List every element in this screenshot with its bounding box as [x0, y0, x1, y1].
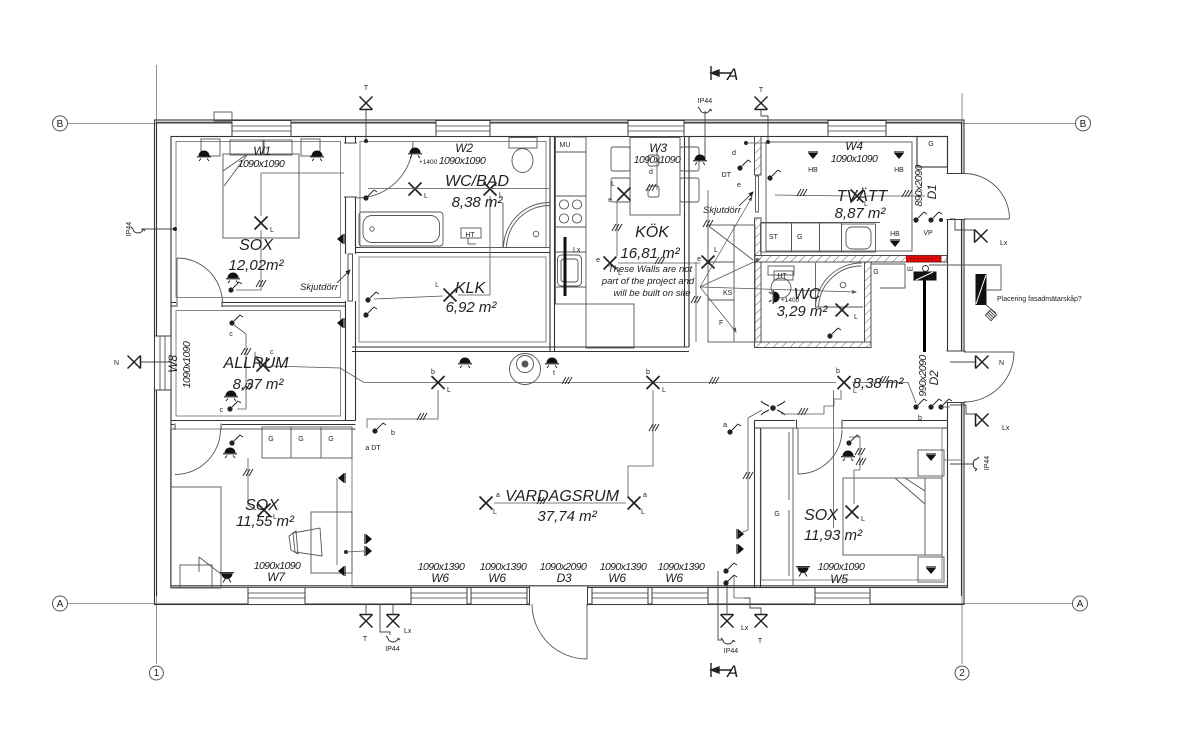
lamp L WC: [836, 304, 849, 317]
room WC/BAD outline: [360, 142, 546, 248]
switch: [846, 435, 860, 446]
svg-text:KLK: KLK: [455, 280, 487, 297]
svg-text:HT: HT: [465, 232, 475, 239]
door arc SOX3: [797, 429, 799, 475]
svg-text:d: d: [649, 169, 653, 176]
svg-text:will be built on site: will be built on site: [613, 288, 690, 299]
lamp L wc: [484, 183, 497, 196]
svg-text:These Walls are not: These Walls are not: [608, 264, 693, 275]
svg-text:HB: HB: [808, 167, 818, 174]
svg-text:Lx: Lx: [1002, 425, 1010, 432]
svg-text:W7: W7: [267, 570, 286, 584]
kitchen table: [630, 138, 680, 216]
svg-text:b: b: [431, 369, 435, 376]
svg-text:A: A: [57, 599, 64, 610]
grid line 2: [961, 93, 963, 664]
wire: [374, 296, 443, 299]
switch top: [229, 435, 243, 446]
svg-text:L: L: [861, 516, 865, 523]
hatched wall WC west: [755, 262, 762, 348]
svg-text:6,92 m²: 6,92 m²: [446, 299, 498, 316]
kitchen black bar: [564, 237, 567, 296]
section arrow A top: [711, 66, 731, 80]
window W6 c: [592, 588, 648, 605]
svg-text:W6: W6: [608, 571, 626, 585]
SOX3 nightstand top: [918, 450, 944, 476]
svg-text:890x2090: 890x2090: [913, 165, 925, 207]
red mark (placering fasadmätarskåp): [907, 256, 942, 262]
wall SOX2 top: [171, 424, 356, 426]
svg-text:A: A: [726, 65, 738, 84]
dome bottom wall: [220, 573, 234, 583]
thick supply line: [923, 281, 926, 353]
svg-text:W6: W6: [431, 571, 449, 585]
lamp L KLK: [444, 289, 457, 302]
junction fan: [761, 401, 785, 415]
svg-text:VARDAGSRUM: VARDAGSRUM: [505, 488, 619, 505]
wall SOX1/ALLRUM divider: [171, 302, 346, 304]
svg-text:SOX: SOX: [245, 497, 280, 514]
wall lamps east: [338, 473, 345, 483]
svg-text:T: T: [363, 636, 368, 643]
kitchen chairs: [611, 147, 630, 171]
hatched wall horizontal (above WC, with red mark): [755, 256, 948, 263]
svg-text:A: A: [1077, 599, 1084, 610]
wire hall2 down: [628, 390, 653, 496]
lamp N left: [128, 356, 141, 369]
door arc SOX1 entry: [177, 258, 223, 304]
junction dot top: [744, 141, 748, 145]
window W1: [232, 121, 291, 137]
svg-text:e: e: [596, 257, 600, 264]
svg-text:G: G: [928, 141, 933, 148]
wall SOX3 (right) top: [755, 420, 948, 422]
WC shower: [816, 263, 864, 307]
toilet WC/BAD: [509, 138, 537, 149]
wall WC/BAD / KLK divider: [356, 247, 551, 249]
kitchen counter band: [556, 137, 587, 304]
svg-text:KS: KS: [723, 290, 733, 297]
svg-text:L: L: [611, 181, 615, 188]
svg-text:W2: W2: [455, 141, 473, 155]
wall kitchen east: [684, 137, 686, 348]
wire: [368, 188, 549, 190]
svg-text:Lx: Lx: [404, 628, 412, 635]
switch WC/BAD: [363, 190, 377, 201]
lamp L SOX2: [258, 504, 271, 517]
svg-text:b: b: [918, 415, 922, 422]
closet G top-right corner: [917, 137, 948, 168]
svg-text:WC/BAD: WC/BAD: [445, 173, 509, 190]
svg-text:SOX: SOX: [239, 237, 274, 254]
svg-text:DT: DT: [722, 172, 732, 179]
svg-text:t: t: [553, 370, 555, 377]
lamp L kitchen 1: [618, 188, 631, 201]
outer wall outer face: [155, 120, 965, 605]
switch KLK b: [363, 307, 377, 318]
TVÄTT counter: [761, 222, 881, 224]
svg-text:c: c: [229, 331, 233, 338]
wires through bottom wall mid: [718, 571, 727, 628]
lamp a/L 1: [480, 497, 493, 510]
svg-text:b: b: [646, 369, 650, 376]
svg-text:e: e: [697, 256, 701, 263]
nightstand lamps: [926, 454, 936, 461]
svg-text:W8: W8: [166, 355, 180, 373]
switch c top: [229, 315, 243, 326]
hatched wall WC south: [755, 342, 872, 348]
grid bubble B right: [1076, 116, 1091, 131]
svg-text:11,93 m²: 11,93 m²: [804, 527, 863, 544]
wall lamp +1400: [769, 290, 780, 304]
door D1 opening (right wall): [947, 174, 966, 220]
dome + switch c bottom: [224, 391, 238, 402]
svg-text:b: b: [391, 430, 395, 437]
svg-text:W1: W1: [253, 144, 270, 158]
lamp L kitchen 2: [604, 257, 617, 270]
lamp Lx right top: [975, 230, 988, 243]
svg-text:T: T: [758, 638, 763, 645]
svg-text:16,81 m²: 16,81 m²: [620, 245, 680, 262]
svg-text:1090x1090: 1090x1090: [831, 153, 878, 165]
svg-text:L: L: [662, 387, 666, 394]
door D3 opening: [530, 587, 588, 606]
TVÄTT inner outline: [766, 142, 912, 251]
lamp a/L 2: [628, 497, 641, 510]
window W6 a: [411, 588, 467, 605]
svg-text:L: L: [435, 282, 439, 289]
SOX3 wardrobe line: [792, 428, 794, 586]
lamp L passage: [702, 256, 715, 269]
svg-text:L: L: [424, 193, 428, 200]
wire to IP44: [944, 459, 962, 461]
door opening SOX1 entry (divider wall): [176, 302, 222, 308]
wire: [761, 110, 768, 142]
lamp L bath: [409, 183, 422, 196]
bed lamp right: [310, 151, 324, 162]
grid line 1: [155, 65, 157, 664]
svg-text:SOX: SOX: [804, 507, 839, 524]
switch DT hall: [372, 423, 386, 434]
svg-text:W3: W3: [649, 141, 667, 155]
grid bubble 1: [149, 666, 163, 680]
switch TVÄTT: [767, 170, 781, 181]
bottom-left outdoor: lamp T: [360, 615, 373, 628]
wire: [494, 502, 626, 504]
proposed facade cabinet outside: [929, 265, 1001, 321]
sliding door gap TVÄTT: [755, 218, 762, 262]
svg-text:HT: HT: [777, 273, 787, 280]
svg-text:1090x1090: 1090x1090: [439, 155, 486, 167]
sink kitchen: [558, 255, 582, 286]
lamp b/L hall 1: [432, 376, 445, 389]
svg-text:T: T: [759, 87, 764, 94]
svg-text:ALLRUM: ALLRUM: [223, 355, 290, 372]
door D3 leaf+arc: [586, 604, 588, 659]
svg-text:F: F: [719, 320, 723, 327]
window W4: [828, 121, 886, 137]
svg-text:a: a: [643, 492, 647, 499]
wires kitchen: [616, 200, 618, 256]
svg-text:G: G: [268, 436, 273, 443]
svg-text:N: N: [999, 360, 1004, 367]
grid bubble 2: [955, 666, 969, 680]
svg-text:Skjutdörr: Skjutdörr: [300, 282, 339, 293]
room KLK outline: [359, 257, 546, 342]
switch SOX1: [226, 273, 240, 284]
svg-text:e: e: [737, 182, 741, 189]
window W7: [248, 588, 305, 605]
svg-text:L: L: [493, 509, 497, 516]
dome corridor 2: [545, 358, 559, 369]
svg-text:G: G: [774, 511, 779, 518]
HB lamps W4: [808, 152, 818, 159]
svg-text:2: 2: [959, 668, 965, 679]
svg-text:12,02m²: 12,02m²: [228, 257, 284, 274]
SOX2 bed: [171, 487, 221, 588]
svg-text:IP44: IP44: [698, 98, 713, 105]
svg-text:G: G: [797, 234, 802, 241]
wall lamps pair right: [737, 529, 744, 539]
svg-text:Lx: Lx: [741, 625, 749, 632]
svg-text:L: L: [641, 509, 645, 516]
svg-text:a: a: [723, 422, 727, 429]
svg-text:1090x1090: 1090x1090: [634, 154, 681, 166]
outer wall inner face: [171, 137, 948, 588]
svg-text:L: L: [854, 314, 858, 321]
svg-text:Lx: Lx: [1000, 240, 1008, 247]
shower WC/BAD: [503, 203, 550, 248]
svg-text:HB: HB: [890, 231, 900, 238]
door D1 leaf+arc: [964, 218, 1009, 220]
svg-text:G: G: [873, 269, 878, 276]
svg-text:WC: WC: [794, 286, 821, 303]
IP44 outlet left: [126, 222, 133, 237]
room ALLRUM outline: [176, 311, 341, 417]
SOX1 nightstand left: [201, 139, 220, 156]
door arc SOX2: [175, 429, 221, 475]
svg-text:1: 1: [154, 668, 160, 679]
grid bubble A left: [53, 596, 68, 611]
window W8 (left wall): [155, 336, 172, 390]
SOX2 G wardrobes: [262, 427, 352, 458]
lamp Lx right mid: [976, 414, 989, 427]
switches bottom wall mid: [723, 563, 737, 574]
svg-text:KÖK: KÖK: [635, 223, 670, 241]
wire: [365, 110, 367, 141]
KS/F tall cabinets: [708, 225, 755, 342]
window W3: [628, 121, 684, 137]
svg-text:L: L: [270, 227, 274, 234]
hall ceiling detector (double circle): [510, 354, 541, 385]
svg-text:B: B: [57, 119, 64, 130]
bed lamp left: [197, 151, 211, 162]
wall lamp +1400: [408, 148, 422, 159]
wall lamp SOX1 east: [337, 234, 344, 244]
lamp N right: [976, 356, 989, 369]
svg-text:1090x1090: 1090x1090: [238, 158, 285, 170]
bottom-mid outdoor: lamp Lx: [721, 615, 734, 628]
wall kitchen west: [549, 137, 551, 352]
window W5: [815, 588, 870, 605]
svg-text:T: T: [364, 85, 369, 92]
pocket door (Skjutdörr) SOX1 gap: [344, 254, 357, 301]
HT box WC/BAD: [461, 228, 481, 238]
svg-text:TVÄTT: TVÄTT: [837, 187, 889, 205]
bottom-left outdoor: lamp Lx: [387, 615, 400, 628]
wall SOX1/ALLRUM east (x345-356): [345, 137, 347, 421]
room SOX2 outline: [171, 429, 353, 588]
svg-text:IP44: IP44: [984, 456, 991, 471]
svg-text:IP44: IP44: [724, 648, 739, 655]
window W6 d: [652, 588, 708, 605]
svg-text:HB: HB: [894, 167, 904, 174]
svg-text:W4: W4: [845, 139, 863, 153]
svg-text:a: a: [496, 492, 500, 499]
TVÄTT washing machine: [842, 224, 876, 252]
W1 casement boxes: [230, 140, 263, 155]
SOX3 bed: [843, 478, 942, 555]
svg-text:G: G: [328, 436, 333, 443]
svg-text:d: d: [732, 150, 736, 157]
svg-text:IP44: IP44: [126, 222, 133, 237]
door D2 leaf+arc: [964, 351, 1014, 353]
lamp T top: [360, 97, 373, 110]
dome passage: [693, 155, 707, 166]
IP44 right: [984, 456, 991, 471]
WC toilet: [768, 266, 794, 275]
SOX1 nightstand right: [301, 139, 320, 156]
lamp L ALLRUM: [257, 359, 270, 372]
svg-text:a DT: a DT: [365, 445, 381, 452]
WC HT box: [774, 271, 793, 280]
svg-text:8,38 m²: 8,38 m²: [853, 375, 905, 392]
hatched wall WC east: [865, 262, 872, 348]
svg-text:D2: D2: [927, 370, 941, 385]
svg-text:W6: W6: [488, 571, 506, 585]
dome bottom: [796, 567, 810, 577]
bottom-mid outdoor: lamp T: [755, 615, 768, 628]
svg-text:IP44: IP44: [385, 646, 400, 653]
leader lines note: [700, 197, 856, 332]
switches at D2: [913, 399, 927, 410]
grid line B: [68, 122, 1075, 124]
svg-text:D1: D1: [925, 185, 939, 200]
bathtub: [359, 212, 443, 246]
lamp L TVÄTT: [851, 190, 864, 203]
lamp b/L hall 2: [647, 376, 660, 389]
Skjutdörr arrow right: [739, 192, 753, 206]
window W2: [436, 121, 490, 137]
wall lamps pair left: [365, 534, 372, 544]
svg-text:3,29 m²: 3,29 m²: [777, 303, 829, 320]
svg-text:B: B: [1080, 119, 1087, 130]
bottom-mid outdoor IP44: [721, 638, 735, 644]
svg-text:37,74 m²: 37,74 m²: [537, 508, 597, 525]
SOX1 bed: [223, 154, 299, 238]
svg-text:N: N: [114, 360, 119, 367]
svg-text:L: L: [714, 247, 718, 254]
svg-text:8,38 m²: 8,38 m²: [452, 194, 504, 211]
wall ALLRUM bottom: [171, 420, 356, 422]
hatched wall vertical upper (TVÄTT west): [755, 137, 762, 176]
room SOX1 outline: [176, 142, 341, 298]
bottom-left outdoor IP44: [386, 636, 400, 642]
svg-text:e: e: [608, 197, 612, 204]
svg-text:MU: MU: [560, 142, 571, 149]
section arrow A bottom: [711, 663, 731, 677]
meter cabinet inside: [907, 266, 936, 353]
lamp L SOX1: [255, 217, 268, 230]
door D2 opening (right wall): [947, 351, 966, 403]
svg-text:Placering fasadmätarskåp?: Placering fasadmätarskåp?: [997, 295, 1082, 303]
lamp L SOX3: [846, 506, 859, 519]
svg-text:+1400: +1400: [419, 159, 438, 166]
svg-text:b: b: [836, 368, 840, 375]
switch a (hall): [727, 424, 741, 435]
svg-text:part of the project and: part of the project and: [601, 276, 695, 287]
svg-text:Lx: Lx: [573, 247, 581, 254]
svg-text:ST: ST: [769, 234, 779, 241]
svg-text:11,55 m²: 11,55 m²: [236, 513, 295, 530]
wires to D2 switches: [852, 383, 916, 404]
svg-text:1090x1090: 1090x1090: [181, 341, 193, 388]
window W6 b: [471, 588, 527, 605]
SOX3 nightstand bottom: [918, 557, 944, 582]
svg-text:VP: VP: [923, 230, 933, 237]
hall G cabinet right of WC: [871, 264, 905, 288]
svg-text:Skjutdörr: Skjutdörr: [703, 205, 742, 216]
svg-text:G: G: [298, 436, 303, 443]
dome corridor 1: [458, 358, 472, 369]
grid bubble B left: [53, 116, 68, 131]
stove: [559, 200, 568, 209]
svg-text:Ш: Ш: [907, 266, 913, 273]
svg-text:L: L: [447, 387, 451, 394]
svg-text:D3: D3: [557, 571, 572, 585]
SOX2 chair: [293, 528, 322, 556]
svg-text:8,37 m²: 8,37 m²: [233, 376, 285, 393]
wall corridor top: [352, 346, 689, 348]
wire to DT: [367, 390, 438, 428]
wire: [261, 173, 356, 216]
door opening SOX3: [795, 420, 843, 475]
svg-text:W5: W5: [830, 572, 848, 586]
grid line A: [68, 603, 1072, 605]
wire: [248, 458, 256, 510]
kitchen lower room line: [586, 304, 634, 348]
svg-text:W6: W6: [665, 571, 683, 585]
SOX2 desk: [311, 512, 352, 573]
grid bubble A right: [1073, 596, 1088, 611]
svg-text:c: c: [220, 407, 224, 414]
room SOX3 outline: [761, 428, 942, 580]
main hall wire: [271, 366, 836, 383]
VP switches: [913, 212, 927, 223]
Skjutdörr arrow left: [337, 270, 350, 283]
wall SOX3 west: [754, 421, 756, 588]
switch WC: [827, 328, 841, 339]
wall lamp ALLRUM east: [337, 318, 344, 328]
exterior vent box top-left: [214, 112, 232, 121]
svg-text:A: A: [726, 662, 738, 681]
door opening SOX2: [174, 424, 222, 475]
lamp T top right: [755, 97, 768, 110]
lamp b/L hall 3: [838, 376, 851, 389]
svg-text:8,87 m²: 8,87 m²: [835, 205, 887, 222]
wires: [234, 325, 246, 392]
switch KLK a: [365, 292, 379, 303]
